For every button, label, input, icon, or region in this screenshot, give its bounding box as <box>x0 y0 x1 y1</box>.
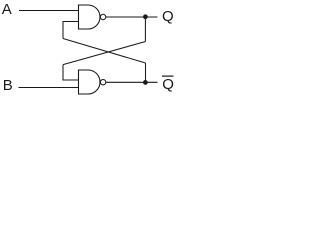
wire top riser from Q node <box>144 17 146 42</box>
junction dot Q node <box>143 14 148 19</box>
junction dot Qbar node <box>143 80 148 85</box>
wire U1 output to Q <box>106 16 158 18</box>
wire diagonal Q feedback to bottom gate input 1 <box>63 42 146 65</box>
wire bottom riser from Qbar node <box>145 63 147 82</box>
nand gate U2 body (bottom) <box>79 70 101 94</box>
nand gate U2 inversion bubble <box>100 80 105 85</box>
svg-text:A: A <box>2 1 12 18</box>
wire A to top gate input 1 <box>19 10 79 12</box>
nand gate U1 body (top) <box>79 5 101 29</box>
wire bottom gate input 1 bend <box>63 65 79 80</box>
nand gate U1 inversion bubble <box>100 14 105 19</box>
svg-text:B: B <box>3 77 13 94</box>
wire diagonal Qbar feedback to top gate input 2 <box>63 39 146 64</box>
wire B to bottom gate input 2 <box>19 87 79 89</box>
wire U2 output to Qbar <box>106 81 158 83</box>
svg-text:Q: Q <box>162 8 174 25</box>
wire top gate input 2 bend from cross-coupling <box>63 22 79 39</box>
svg-text:Q: Q <box>162 76 174 93</box>
